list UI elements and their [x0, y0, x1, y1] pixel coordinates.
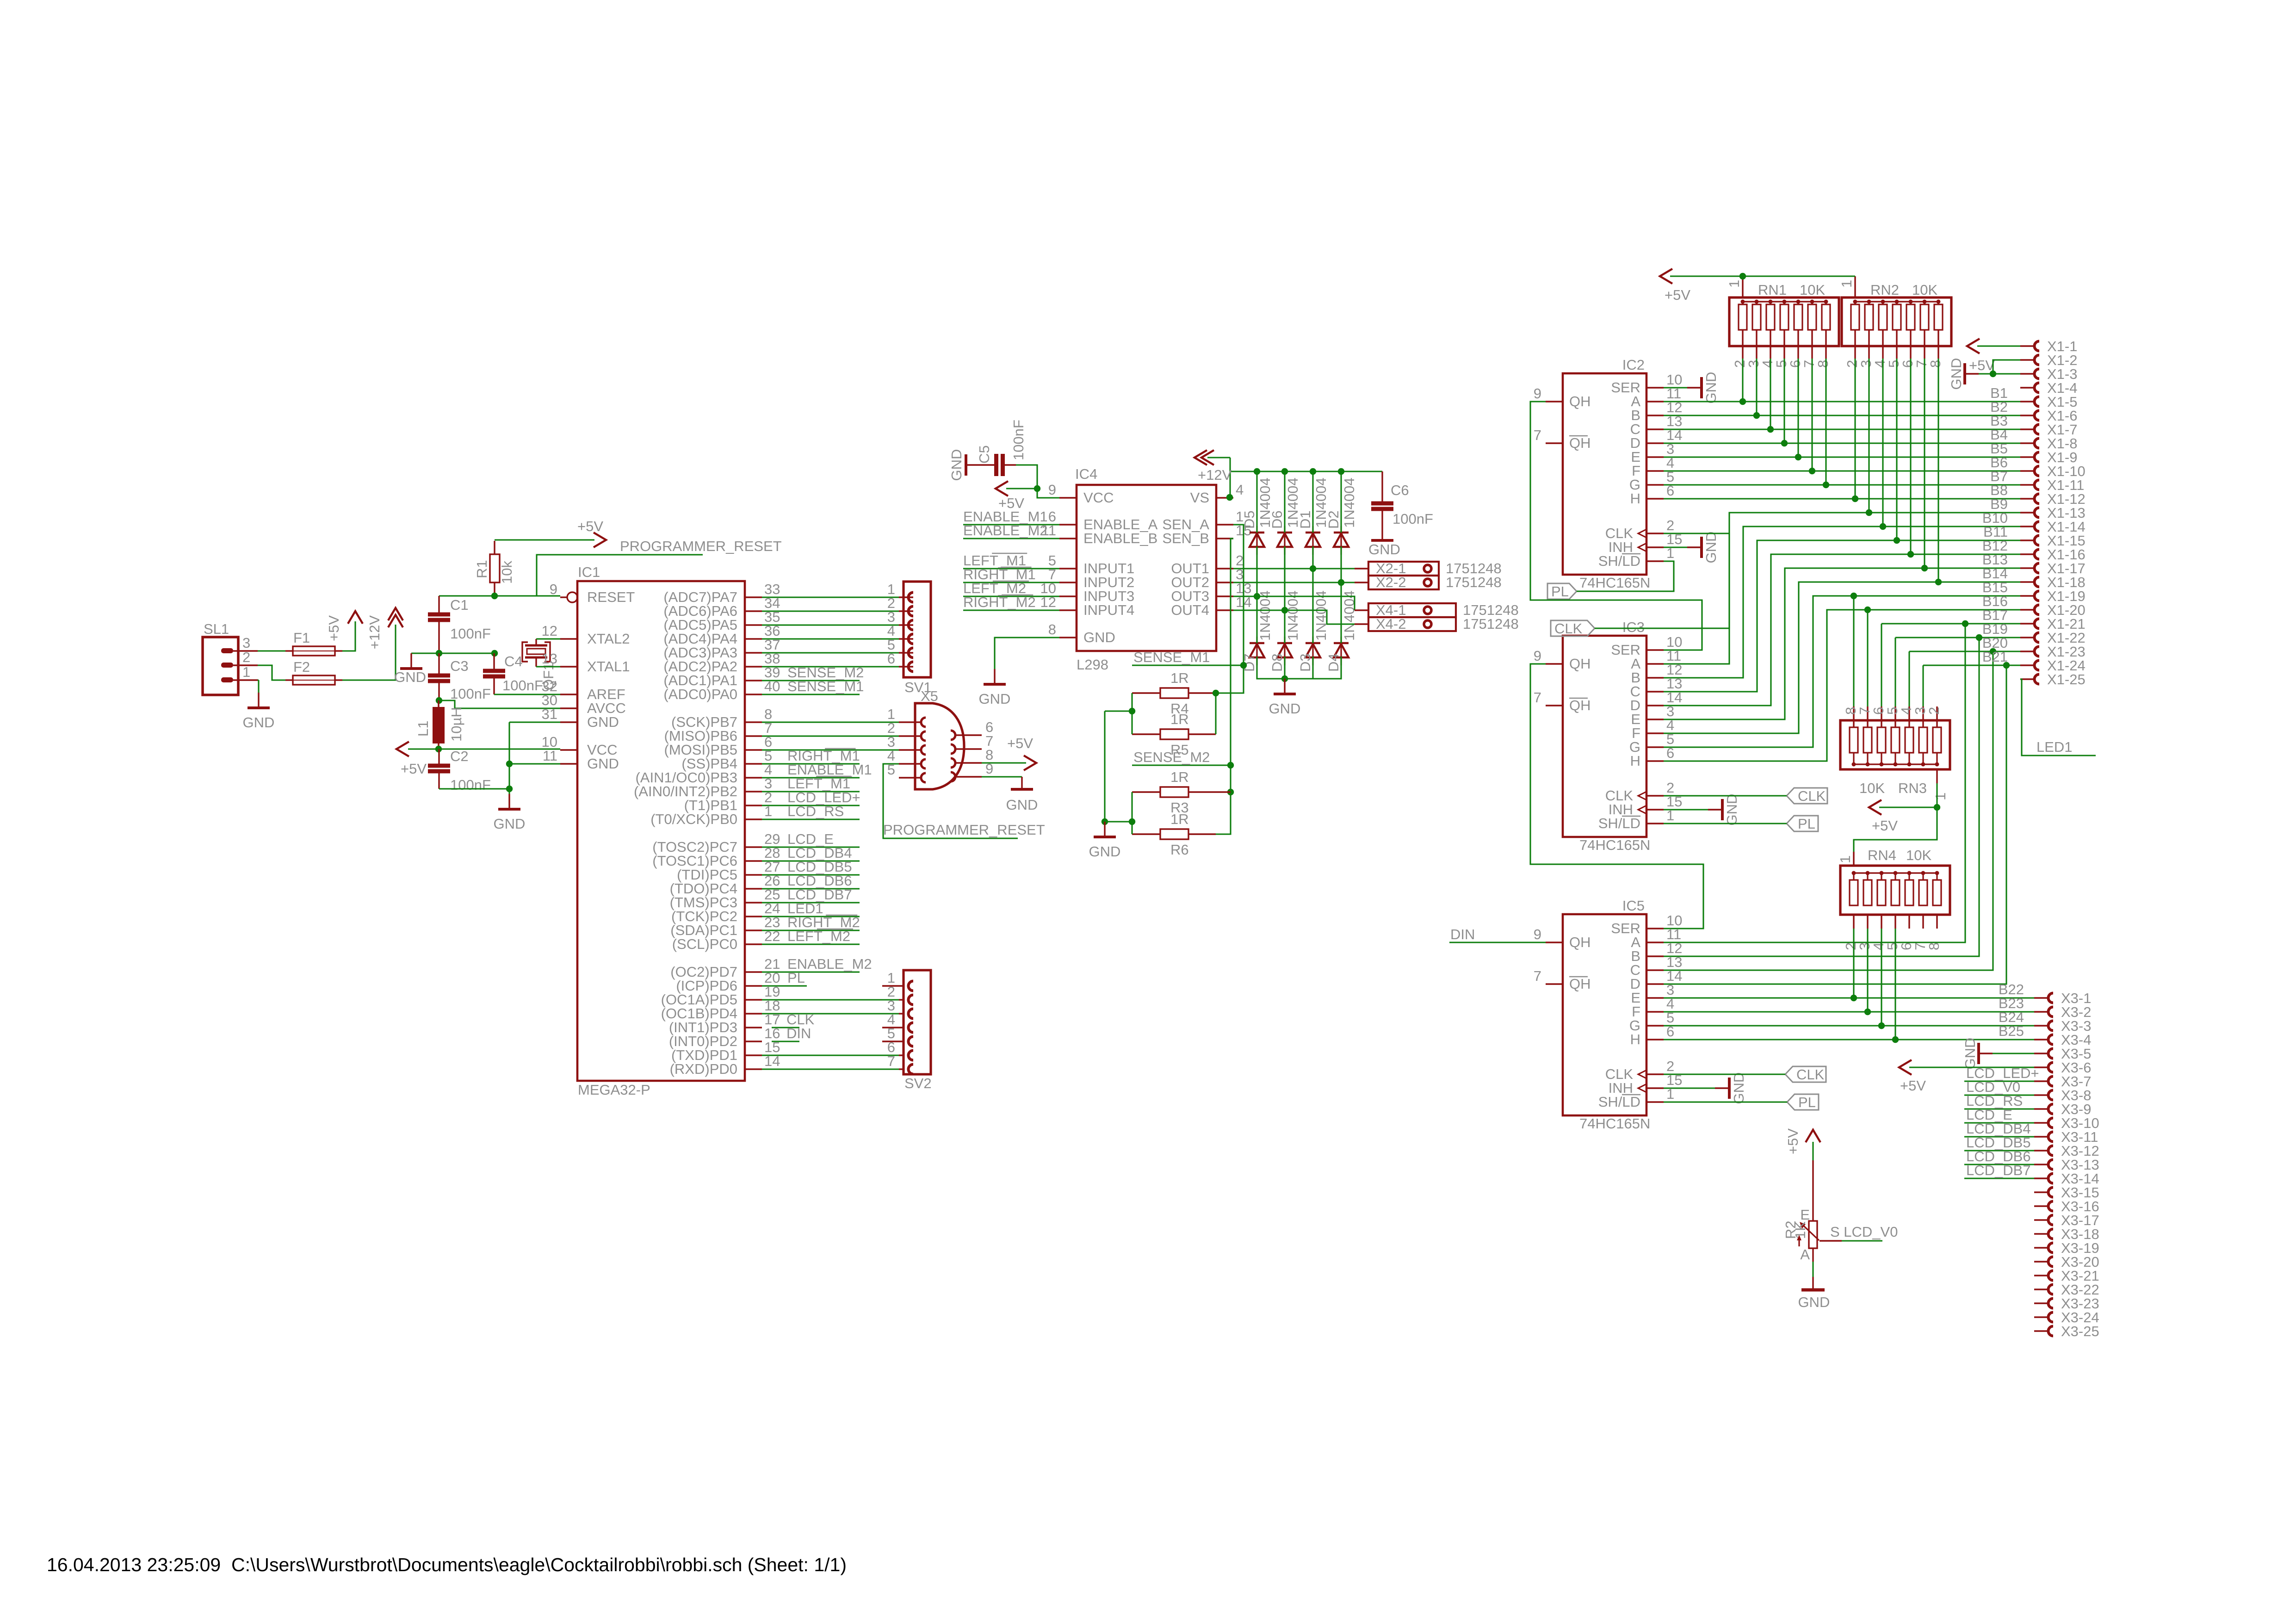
svg-text:1: 1: [242, 664, 250, 680]
svg-text:10K: 10K: [1800, 282, 1825, 298]
pin SV1.1: [899, 596, 913, 598]
svg-text:D6: D6: [1269, 510, 1285, 529]
node RESET net: [439, 595, 560, 596]
wire RN2 pin8 drop: [1937, 359, 1939, 582]
pin X3-2: [2034, 1011, 2048, 1012]
ic IC1 outline: [577, 581, 745, 1081]
wire VCC row: [408, 748, 560, 750]
svg-text:GND: GND: [587, 714, 619, 730]
svg-text:1N4004: 1N4004: [1341, 477, 1357, 528]
svg-text:GND: GND: [1703, 532, 1719, 564]
svg-text:IC3: IC3: [1622, 619, 1645, 635]
pin X3-21: [2034, 1275, 2048, 1276]
svg-text:+5V: +5V: [577, 518, 603, 534]
wire RN4 pin5 drop: [1894, 929, 1896, 1040]
wire PD4-SV2.3: [762, 1013, 899, 1014]
wire B5: [1664, 456, 2020, 458]
pin IC2.5 G: [1646, 484, 1664, 485]
svg-text:1R: 1R: [1170, 670, 1189, 686]
pin IC1.36 (ADC4)PA4: [745, 638, 762, 639]
pin X1-13: [2020, 512, 2035, 513]
pin IC5.11 A: [1646, 942, 1664, 943]
pin IC3.2 CLK: [1646, 795, 1664, 796]
wire B21: [1922, 665, 1924, 706]
pin IC5.1 SH/LD: [1646, 1101, 1664, 1103]
svg-text:X4-2: X4-2: [1376, 616, 1406, 632]
pin IC1.40 (ADC0)PA0: [745, 694, 762, 695]
wire R4-R5 right: [1215, 693, 1216, 734]
svg-text:8: 8: [1926, 942, 1942, 950]
pin SV1.2: [899, 610, 913, 612]
pin IC1.21 (OC2)PD7: [745, 971, 762, 973]
label RIGHT_M2 at IC4: [963, 609, 1059, 611]
wire RN1 pin5 drop: [1783, 359, 1785, 443]
supply +5V at X1-1: [1977, 345, 2020, 347]
svg-text:1R: 1R: [1170, 811, 1189, 827]
ground GND below C2: [508, 794, 510, 809]
wire IC5 to B19: [1664, 638, 1979, 956]
wire OUT3 to X4-1: [1233, 596, 1355, 610]
svg-text:XTAL2: XTAL2: [587, 631, 630, 647]
svg-text:1R: 1R: [1170, 769, 1189, 785]
svg-text:H: H: [1630, 753, 1640, 769]
svg-text:10K: 10K: [1912, 282, 1937, 298]
svg-text:100nF: 100nF: [1392, 511, 1433, 527]
svg-text:11: 11: [543, 748, 557, 764]
pin IC1.26 (TDO)PC4: [745, 888, 762, 889]
svg-text:74HC165N: 74HC165N: [1579, 575, 1650, 591]
pin X1-6: [2020, 415, 2035, 416]
wire PA7-SV1.1: [762, 596, 899, 598]
pin IC3.15 INH: [1646, 809, 1664, 810]
svg-text:9: 9: [550, 581, 557, 597]
pin IC1.9 RESET: [560, 596, 567, 598]
pin IC1.6 (MOSI)PB5: [745, 749, 762, 750]
flag CLK at IC5: [1785, 1066, 1826, 1082]
wire PROGRAMMER_RESET: [537, 555, 703, 596]
svg-text:X2-2: X2-2: [1376, 574, 1406, 590]
pin IC1.19 (OC1A)PD5: [745, 999, 762, 1000]
svg-text:VCC: VCC: [1083, 489, 1114, 506]
svg-text:H: H: [1630, 1031, 1640, 1047]
pin IC1.31 GND: [560, 721, 577, 723]
svg-text:8: 8: [1927, 360, 1943, 368]
ground GND at IC4: [994, 669, 995, 684]
resistor R3: [1160, 787, 1188, 797]
wire RN2 pin2 drop: [1854, 359, 1856, 499]
svg-text:100nF: 100nF: [502, 677, 543, 694]
pin X3-16: [2034, 1205, 2048, 1207]
svg-text:PROGRAMMER_RESET: PROGRAMMER_RESET: [620, 538, 782, 554]
wire B22: [1664, 997, 2034, 998]
wire B19: [1894, 638, 1896, 706]
svg-text:10k: 10k: [499, 561, 515, 584]
svg-text:GND: GND: [1798, 1294, 1830, 1310]
pin IC2.1 SH/LD: [1646, 560, 1664, 562]
wire F1 to +5V: [342, 621, 355, 651]
pin X5.2: [899, 735, 921, 737]
pin SV2.1: [882, 985, 904, 986]
pin X3-17: [2034, 1219, 2048, 1220]
pin X1-16: [2020, 553, 2035, 555]
pin X3-5: [2034, 1053, 2048, 1054]
svg-text:7: 7: [1534, 968, 1541, 984]
pin IC1.15 (TXD)PD1: [745, 1054, 762, 1056]
diode D2 1N4004: [1340, 526, 1342, 555]
svg-text:OUT4: OUT4: [1171, 602, 1209, 618]
pin X5.3: [899, 749, 921, 750]
wire LED1 from X1-25: [2020, 679, 2096, 756]
svg-text:PL: PL: [1798, 816, 1815, 832]
pin IC5.4 F: [1646, 1011, 1664, 1012]
pin X3-13: [2034, 1164, 2048, 1165]
wire B10: [1664, 527, 2020, 678]
svg-text:QH: QH: [1569, 435, 1591, 451]
wire PD0-SV2.7: [762, 1068, 899, 1070]
pin IC1.4 (AIN1/OC0)PB3: [745, 777, 762, 778]
pin IC2.14 D: [1646, 442, 1664, 444]
svg-text:X3-25: X3-25: [2061, 1323, 2099, 1339]
ground GND at X5: [1021, 777, 1022, 789]
pin IC1.29 (TOSC2)PC7: [745, 846, 762, 848]
pin X1-24: [2020, 664, 2035, 666]
terminal X4-2: [1368, 617, 1456, 631]
pin IC4.3 OUT2: [1216, 582, 1233, 583]
svg-text:9: 9: [1534, 648, 1541, 664]
svg-text:RN3: RN3: [1898, 780, 1927, 796]
pin IC1.1 (T0/XCK)PB0: [745, 818, 762, 820]
svg-text:1: 1: [1837, 855, 1853, 863]
pin IC1.27 (TDI)PC5: [745, 874, 762, 875]
pin IC3.14 D: [1646, 705, 1664, 706]
svg-text:1N4004: 1N4004: [1257, 590, 1273, 641]
supply +12V rail: [1207, 457, 1230, 458]
svg-text:SENSE_M1: SENSE_M1: [787, 678, 864, 694]
pin IC1.12 XTAL2: [560, 638, 577, 639]
pin IC4.2 OUT1: [1216, 568, 1233, 569]
label ENABLE_M1 at IC1: [762, 777, 860, 778]
pin X1-11: [2020, 484, 2035, 485]
pin SV2.2: [899, 999, 904, 1000]
diode D3 1N4004: [1312, 637, 1313, 665]
svg-text:GND: GND: [1731, 1072, 1747, 1104]
svg-text:12: 12: [542, 623, 557, 639]
pin X3-10: [2034, 1122, 2048, 1123]
svg-text:GND: GND: [394, 669, 426, 685]
pin X1-23: [2020, 650, 2035, 652]
pin X3-12: [2034, 1150, 2048, 1151]
pin IC3.3 E: [1646, 719, 1664, 720]
svg-text:9: 9: [1048, 482, 1056, 498]
resistor network RN1: [1729, 297, 1839, 346]
svg-text:H: H: [1630, 490, 1640, 507]
supply +5V at RN3: [1879, 806, 1937, 808]
wire R3-R6 left: [1131, 792, 1133, 834]
label DIN at IC5: [1449, 942, 1546, 943]
pin IC4.7 INPUT2: [1059, 582, 1077, 583]
pin IC1.28 (TOSC1)PC6: [745, 860, 762, 861]
label LEFT_M2 at IC1: [762, 943, 860, 945]
pin IC5.6 H: [1646, 1039, 1664, 1040]
wire RN1 pin2 drop: [1742, 359, 1743, 402]
wire B24: [1664, 1025, 2034, 1026]
svg-text:RIGHT_M2: RIGHT_M2: [963, 594, 1036, 610]
svg-text:X1-25: X1-25: [2047, 671, 2086, 688]
label LCD_DB4: [1964, 1136, 2034, 1137]
pin IC3.10 SER: [1646, 649, 1664, 650]
wire crystal to XTAL1: [536, 666, 560, 667]
pin IC2.15 INH: [1646, 546, 1664, 548]
pin X1-15: [2020, 539, 2035, 541]
ic IC3 outline: [1563, 636, 1646, 837]
svg-text:CLK: CLK: [1796, 1066, 1825, 1083]
svg-text:+12V: +12V: [366, 615, 383, 650]
wire OUT2 to X2-2: [1233, 582, 1355, 583]
svg-text:100nF: 100nF: [450, 626, 491, 642]
wire B7: [1664, 484, 2020, 485]
wire SL1-1 to ground: [258, 679, 259, 681]
pin IC1.5 (SS)PB4: [745, 763, 762, 764]
svg-text:LCD_DB7: LCD_DB7: [1966, 1162, 2031, 1178]
pin IC3.4 F: [1646, 732, 1664, 734]
pin IC4.8 GND: [1059, 637, 1077, 638]
label LCD_DB5 at IC1: [762, 874, 860, 875]
svg-text:3: 3: [242, 635, 250, 651]
svg-text:GND: GND: [1269, 700, 1301, 717]
pin IC2.2 CLK: [1646, 533, 1664, 534]
svg-text:CLK: CLK: [1798, 788, 1826, 804]
supply +5V above F1: [348, 611, 363, 624]
wire RN4 pin4 drop: [1881, 929, 1882, 1026]
wire PA3-SV1.5: [762, 652, 899, 653]
pin X3-14: [2034, 1177, 2048, 1179]
pin IC1.35 (ADC5)PA5: [745, 624, 762, 626]
wire B25: [1664, 1039, 2034, 1040]
svg-text:(RXD)PD0: (RXD)PD0: [670, 1061, 737, 1077]
diode D8 1N4004: [1284, 637, 1285, 665]
pin IC3.12 B: [1646, 677, 1664, 678]
wire B8: [1664, 498, 2020, 499]
pin IC1.37 (ADC3)PA3: [745, 652, 762, 653]
resistor network RN4: [1840, 866, 1950, 915]
pin X1-1: [2020, 345, 2035, 347]
wire RN1 pin6 drop: [1797, 359, 1799, 457]
svg-text:(SCL)PC0: (SCL)PC0: [672, 936, 737, 952]
pin IC1.30 AVCC: [560, 707, 577, 709]
svg-text:+5V: +5V: [326, 615, 342, 641]
svg-text:E: E: [1800, 1207, 1810, 1223]
svg-text:16.04.2013 23:25:09 C:\Users\: 16.04.2013 23:25:09 C:\Users\Wurstbrot\D…: [47, 1554, 847, 1575]
wire IC3.QH to IC5.SER: [1530, 664, 1703, 929]
svg-text:B21: B21: [1982, 649, 2008, 665]
pin X3-9: [2034, 1108, 2048, 1109]
pin IC5.9 QH: [1546, 942, 1563, 943]
pin IC2.7 QHbar: [1546, 442, 1563, 444]
label SENSE_M1: [1132, 664, 1244, 666]
terminal X2-2: [1368, 576, 1439, 589]
svg-text:7: 7: [887, 1053, 895, 1069]
wire PB5-X5.3: [762, 749, 899, 750]
svg-text:LCD_RS: LCD_RS: [787, 803, 844, 819]
wire PA2-SV1.6: [762, 666, 899, 667]
wire PA5-SV1.3: [762, 624, 899, 626]
svg-text:D3: D3: [1297, 653, 1313, 672]
diode D7 1N4004: [1256, 637, 1257, 665]
ic IC2 outline: [1563, 373, 1646, 575]
pin IC3.1 SH/LD: [1646, 823, 1664, 824]
pin IC1.14 (RXD)PD0: [745, 1068, 762, 1070]
ground GND at SL1: [258, 693, 259, 708]
wire PB6-X5.2: [762, 735, 899, 737]
wire SL1-3 to F1: [258, 650, 285, 651]
svg-text:VS: VS: [1190, 489, 1209, 506]
svg-text:7: 7: [1534, 689, 1541, 706]
pin X3-11: [2034, 1136, 2048, 1137]
wire B16: [1664, 610, 2020, 761]
svg-text:IC4: IC4: [1075, 466, 1097, 482]
svg-text:100nF: 100nF: [450, 777, 491, 793]
wire VS to +12V rail: [1229, 458, 1231, 497]
wire RN1 pin7 drop: [1811, 359, 1813, 471]
ground GND at R2: [1812, 1277, 1813, 1290]
pin IC1.8 (SCK)PB7: [745, 721, 762, 723]
pin X3-8: [2034, 1094, 2048, 1096]
label SENSE_M1 at IC1: [762, 694, 860, 695]
pin IC4.14 OUT4: [1216, 609, 1233, 611]
svg-text:10K: 10K: [1859, 780, 1885, 796]
wire GND pins: [509, 721, 560, 723]
svg-text:1N4004: 1N4004: [1285, 590, 1301, 641]
pin X1-3: [2020, 373, 2035, 374]
pin SV2.6: [899, 1054, 904, 1056]
svg-text:A: A: [1800, 1246, 1810, 1263]
wire RN2 pin6 drop: [1910, 359, 1911, 554]
pin IC4.10 INPUT3: [1059, 595, 1077, 597]
svg-text:GND: GND: [587, 756, 619, 772]
wire PD1-SV2.6: [762, 1054, 899, 1056]
supply +5V at VCC: [396, 742, 409, 756]
svg-text:1R: 1R: [1170, 711, 1189, 727]
pin X3-23: [2034, 1302, 2048, 1304]
pin IC1.16 (INT0)PD2: [745, 1041, 762, 1042]
capacitor C5: [994, 454, 998, 476]
wire B11: [1664, 540, 2020, 692]
wire RN1 pin4 drop: [1770, 359, 1771, 429]
svg-text:+5V: +5V: [401, 761, 427, 777]
supply +5V at R2: [1806, 1130, 1820, 1142]
pin X5.1: [899, 721, 921, 723]
svg-text:2: 2: [1926, 707, 1942, 715]
node AVCC wire: [439, 700, 560, 708]
pin IC3.5 G: [1646, 746, 1664, 748]
resistor R6: [1160, 829, 1188, 839]
pin X1-2: [2020, 359, 2035, 360]
label RIGHT_M2 at IC1: [762, 929, 860, 931]
pin IC4.9 VCC: [1059, 497, 1077, 498]
svg-text:IC5: IC5: [1622, 898, 1645, 914]
pin SV2.3: [899, 1013, 904, 1014]
svg-text:1751248: 1751248: [1446, 574, 1502, 590]
pin X3-6: [2034, 1066, 2048, 1068]
svg-text:QH: QH: [1569, 934, 1591, 950]
pin X1-17: [2020, 567, 2035, 569]
diode D4 1N4004: [1340, 637, 1342, 665]
pin IC1.34 (ADC6)PA6: [745, 610, 762, 612]
svg-text:R5: R5: [1170, 742, 1189, 758]
capacitor C3: [428, 674, 450, 678]
svg-text:SENSE_M1: SENSE_M1: [1133, 649, 1210, 665]
wire SEN_A: [1216, 525, 1244, 693]
pin IC4.1 SEN_A: [1216, 524, 1233, 525]
pin IC1.33 (ADC7)PA7: [745, 596, 762, 598]
label RIGHT_M1 at IC1: [762, 763, 860, 764]
pin X1-20: [2020, 609, 2035, 610]
wire R2 to GND: [1812, 1262, 1813, 1277]
ground GND at IC2 SER: [1664, 387, 1687, 388]
svg-text:GND: GND: [948, 449, 965, 481]
capacitor C1: [428, 613, 450, 617]
wire B23: [1664, 1011, 2034, 1012]
svg-text:C1: C1: [450, 597, 469, 613]
wire RN4 pin3 drop: [1867, 929, 1868, 1012]
ground GND below diodes: [1284, 679, 1285, 694]
svg-text:+12V: +12V: [1198, 467, 1232, 483]
pin IC5.13 C: [1646, 969, 1664, 971]
svg-text:GND: GND: [1703, 372, 1719, 404]
pin SV2.7: [899, 1068, 904, 1070]
pin SV2.5: [882, 1041, 904, 1042]
diode D5 1N4004: [1256, 526, 1257, 555]
pin X3-25: [2034, 1330, 2048, 1332]
wire RN2 pin3 drop: [1868, 359, 1869, 513]
pin IC4.12 INPUT4: [1059, 609, 1077, 611]
label LCD_LED+: [1964, 1080, 2034, 1082]
pin X3-20: [2034, 1261, 2048, 1262]
label LCD_DB4 at IC1: [762, 860, 860, 861]
pin X1-10: [2020, 470, 2035, 471]
pin X1-7: [2020, 428, 2035, 430]
svg-text:8: 8: [1815, 360, 1831, 368]
svg-text:F2: F2: [293, 659, 310, 675]
wire RN2 pin5 drop: [1896, 359, 1897, 540]
svg-text:SH/LD: SH/LD: [1598, 815, 1640, 831]
wire IC2 SH/LD to PL: [1577, 561, 1674, 591]
svg-text:+5V: +5V: [1785, 1128, 1801, 1154]
pin IC4.4 VS: [1216, 497, 1233, 498]
pin IC5.12 B: [1646, 955, 1664, 957]
pin X3-3: [2034, 1025, 2048, 1026]
svg-text:9: 9: [1534, 385, 1541, 402]
pin SV2.4: [882, 1027, 904, 1028]
ground GND at C5: [965, 454, 967, 476]
connector SV1: [904, 582, 931, 677]
svg-text:4: 4: [1236, 482, 1244, 498]
svg-text:MEGA32-P: MEGA32-P: [578, 1082, 650, 1098]
pin X1-18: [2020, 581, 2035, 582]
pin IC5.14 D: [1646, 983, 1664, 985]
pin X1-4: [2020, 387, 2035, 388]
ground GND at IC5 INH: [1664, 1087, 1715, 1089]
terminal X2-1: [1368, 562, 1439, 576]
wire R4-R5 left: [1131, 693, 1133, 734]
pin IC2.4 F: [1646, 470, 1664, 471]
svg-text:LEFT_M2: LEFT_M2: [787, 928, 850, 944]
pin IC1.25 (TMS)PC3: [745, 902, 762, 903]
wire IC2 CLK flag: [1595, 533, 1729, 628]
svg-text:GND: GND: [1083, 629, 1115, 645]
flag PL at IC3: [1787, 816, 1818, 831]
pin IC1.7 (MISO)PB6: [745, 735, 762, 737]
